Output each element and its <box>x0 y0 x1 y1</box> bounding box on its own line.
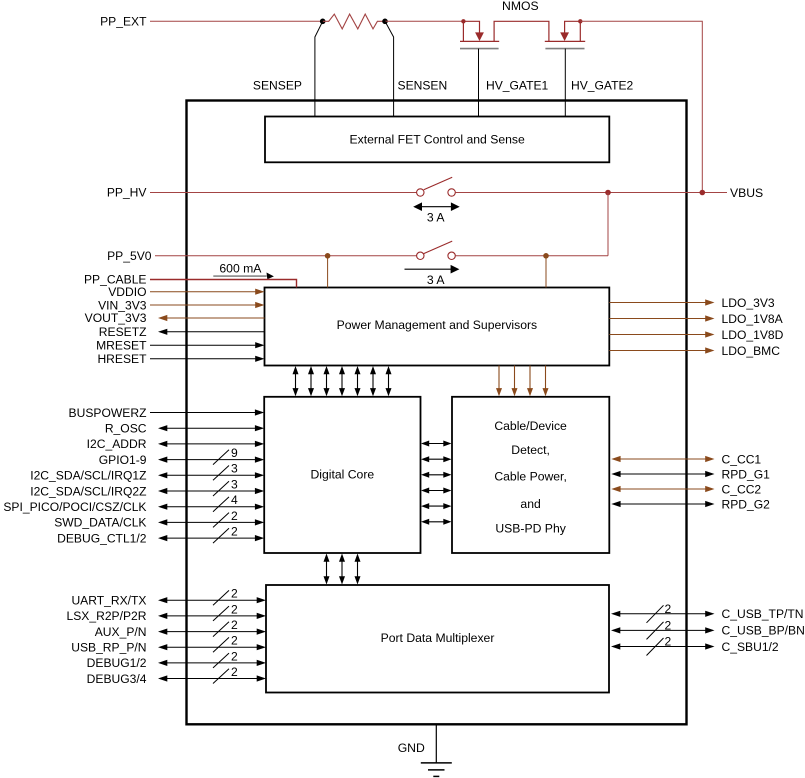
pin label UART_RX/TX <box>71 594 146 608</box>
svg-text:DEBUG1/2: DEBUG1/2 <box>87 656 147 670</box>
wire DEBUG3/4 <box>158 665 266 684</box>
svg-text:PP_HV: PP_HV <box>107 186 148 200</box>
wire LDO_1V8A <box>609 315 714 321</box>
wire GPIO1-9 <box>158 446 264 465</box>
svg-text:External FET Control and Sense: External FET Control and Sense <box>350 132 525 146</box>
pin label GPIO1-9 <box>99 453 147 467</box>
pin label I2C_SDA/SCL/IRQ2Z <box>30 484 147 498</box>
pin label I2C_ADDR <box>87 437 147 451</box>
pin label C_CC1 <box>722 452 762 466</box>
bus PM-DigitalCore arrow 7 <box>386 366 392 396</box>
transistor Q1 channel <box>460 40 499 42</box>
pin label DEBUG_CTL1/2 <box>57 531 147 545</box>
pin label LDO_BMC <box>722 344 781 358</box>
pin label SPI_PICO/POCI/CSZ/CLK <box>3 500 146 514</box>
switch SW2 right contact <box>448 252 455 259</box>
svg-text:3 A: 3 A <box>427 273 445 287</box>
pin label C_CC2 <box>722 482 762 496</box>
pin label GND <box>398 741 425 755</box>
block Port Data Multiplexer <box>266 585 609 693</box>
svg-text:GPIO1-9: GPIO1-9 <box>99 453 147 467</box>
pin label PP_EXT <box>100 14 147 28</box>
pin label SWD_DATA/CLK <box>54 516 146 530</box>
pin label LSX_R2P/P2R <box>67 609 147 623</box>
wire I2C_SDA/SCL/IRQ1Z <box>158 462 264 481</box>
bus DigitalCore-CableDetect arrow 6 <box>421 519 452 525</box>
switch SW2 blade <box>424 241 453 254</box>
pin label C_USB_TP/TN <box>722 607 804 621</box>
annotation 600 mA arrow <box>213 261 274 279</box>
pin label PP_CABLE <box>84 273 147 287</box>
node VBUS junction dot <box>700 190 706 196</box>
node Q2 source junction dot <box>578 19 582 23</box>
label SENSEN <box>398 79 448 93</box>
pin label DEBUG1/2 <box>87 656 147 670</box>
wire between Q1 and Q2 <box>494 21 549 41</box>
transistor Q2 drain corner wire <box>565 21 581 33</box>
svg-text:9: 9 <box>231 446 238 460</box>
pin label VDDIO <box>108 285 146 299</box>
node PP_5V0 tap dot <box>325 253 331 259</box>
wire switch SW2 to tie <box>455 255 608 257</box>
wire C_SBU1/2 <box>611 635 715 656</box>
svg-text:3 A: 3 A <box>427 210 445 224</box>
bus PM-DigitalCore arrow 6 <box>370 366 376 396</box>
transistor Q1 gate plate <box>460 48 499 50</box>
wire SWD_DATA/CLK <box>158 509 264 528</box>
wire LDO_1V8D <box>609 331 714 337</box>
svg-text:PP_5V0: PP_5V0 <box>107 249 152 263</box>
node SENSEP junction dot <box>320 19 326 25</box>
ground symbol <box>421 763 452 777</box>
pin label LDO_3V3 <box>722 296 775 310</box>
node Q1 source junction dot <box>461 19 465 23</box>
pin label LDO_1V8D <box>722 328 784 342</box>
svg-text:2: 2 <box>665 618 672 632</box>
pin label R_OSC <box>105 422 147 436</box>
svg-text:LSX_R2P/P2R: LSX_R2P/P2R <box>67 609 147 623</box>
label SENSEP <box>253 79 302 93</box>
svg-text:2: 2 <box>231 634 238 648</box>
wire SPI_PICO/POCI/CSZ/CLK <box>158 493 264 512</box>
wire I2C_SDA/SCL/IRQ2Z <box>158 477 264 496</box>
block Digital Core <box>264 397 420 553</box>
svg-text:I2C_ADDR: I2C_ADDR <box>87 437 147 451</box>
wire LSX_R2P/P2R <box>158 602 266 621</box>
label NMOS <box>502 0 539 13</box>
svg-text:PP_EXT: PP_EXT <box>100 14 147 28</box>
transistor Q2 source lead <box>579 21 581 41</box>
wire LDO_3V3 <box>609 299 714 305</box>
pin label USB_RP_P/N <box>71 641 146 655</box>
wire VOUT_3V3 <box>158 315 265 321</box>
pin label LDO_1V8A <box>722 312 784 326</box>
svg-text:C_CC1: C_CC1 <box>722 452 762 466</box>
wire C_USB_BP/BN <box>611 618 715 639</box>
transistor Q2 channel <box>545 40 585 42</box>
wire PP_5V0 to switch <box>155 255 417 257</box>
wire I2C_ADDR <box>158 441 264 447</box>
svg-text:2: 2 <box>231 649 238 663</box>
annotation 3 A double arrow (SW1) <box>413 202 460 224</box>
svg-text:Digital Core: Digital Core <box>311 468 375 482</box>
wire MRESET <box>150 342 265 348</box>
bus DigitalCore-PortMux arrow 3 <box>355 554 361 585</box>
wire PP_HV to PP_5V0 tie <box>607 193 609 256</box>
pin label PP_5V0 <box>107 249 152 263</box>
pin label BUSPOWERZ <box>69 406 148 420</box>
svg-text:RESETZ: RESETZ <box>99 325 147 339</box>
switch SW1 blade <box>424 177 453 190</box>
pin label DEBUG3/4 <box>87 672 147 686</box>
switch SW2 left contact <box>417 252 424 259</box>
transistor Q2 body arrow <box>560 32 569 41</box>
pin label MRESET <box>96 338 147 352</box>
svg-text:RPD_G2: RPD_G2 <box>722 497 771 511</box>
svg-text:VDDIO: VDDIO <box>108 285 146 299</box>
block External FET Control and Sense <box>265 117 609 163</box>
wire PP_EXT to resistor <box>150 20 323 22</box>
svg-text:SENSEP: SENSEP <box>253 79 302 93</box>
bus DigitalCore-PortMux arrow 2 <box>339 554 345 585</box>
bus DigitalCore-CableDetect arrow 4 <box>421 488 452 494</box>
svg-text:HRESET: HRESET <box>97 352 147 366</box>
svg-text:HV_GATE1: HV_GATE1 <box>486 79 549 93</box>
wire HV_GATE1 <box>478 49 480 117</box>
svg-text:C_SBU1/2: C_SBU1/2 <box>722 640 779 654</box>
bus DigitalCore-CableDetect arrow 2 <box>421 456 452 462</box>
svg-text:DEBUG_CTL1/2: DEBUG_CTL1/2 <box>57 531 147 545</box>
svg-text:C_USB_TP/TN: C_USB_TP/TN <box>722 607 804 621</box>
svg-text:2: 2 <box>665 635 672 649</box>
pin label RESETZ <box>99 325 147 339</box>
wire PM-CableDetect supply 3 <box>527 366 533 397</box>
svg-text:Cable/Device: Cable/Device <box>494 419 567 433</box>
wire PP_CABLE <box>150 280 297 288</box>
svg-text:I2C_SDA/SCL/IRQ1Z: I2C_SDA/SCL/IRQ1Z <box>30 469 147 483</box>
svg-text:Detect,: Detect, <box>511 443 550 457</box>
svg-text:USB_RP_P/N: USB_RP_P/N <box>71 641 146 655</box>
svg-text:DEBUG3/4: DEBUG3/4 <box>87 672 147 686</box>
svg-text:2: 2 <box>231 509 238 523</box>
label HV_GATE2 <box>571 79 634 93</box>
wire HRESET <box>150 356 265 362</box>
wire resistor to NMOS Q1 <box>385 20 463 22</box>
svg-text:LDO_1V8A: LDO_1V8A <box>722 312 784 326</box>
wire HV_GATE2 <box>564 49 566 117</box>
pin label PP_HV <box>107 186 148 200</box>
svg-text:2: 2 <box>231 587 238 601</box>
wire DEBUG1/2 <box>158 649 266 668</box>
svg-text:BUSPOWERZ: BUSPOWERZ <box>69 406 148 420</box>
svg-text:RPD_G1: RPD_G1 <box>722 467 771 481</box>
svg-text:SWD_DATA/CLK: SWD_DATA/CLK <box>54 516 146 530</box>
bus DigitalCore-CableDetect arrow 3 <box>421 472 452 478</box>
bus PM-DigitalCore arrow 1 <box>293 366 299 396</box>
wire GND <box>435 724 437 763</box>
block Cable/Device Detect Cable Power and USB-PD Phy <box>452 397 609 553</box>
transistor Q2 gate plate <box>545 48 584 50</box>
svg-text:Cable Power,: Cable Power, <box>494 469 567 483</box>
wire PM-CableDetect supply 4 <box>543 366 549 397</box>
svg-text:LDO_3V3: LDO_3V3 <box>722 296 775 310</box>
bus PM-DigitalCore arrow 2 <box>308 366 314 396</box>
wire LDO_BMC <box>609 347 714 353</box>
svg-text:GND: GND <box>398 741 425 755</box>
pin label C_USB_BP/BN <box>722 624 805 638</box>
pin label RPD_G1 <box>722 467 771 481</box>
svg-text:VOUT_3V3: VOUT_3V3 <box>85 311 147 325</box>
pin label RPD_G2 <box>722 497 771 511</box>
transistor Q1 drain corner wire <box>463 21 479 33</box>
wire R_OSC <box>158 425 264 431</box>
wire RESETZ <box>158 329 265 335</box>
wire switch SW1 to VBUS <box>455 192 727 194</box>
wire SENSEN <box>385 21 394 116</box>
node 5V0 tap2 dot <box>543 253 549 259</box>
wire PP_5V0 tap to PM block <box>327 256 329 288</box>
wire RPD_G2 <box>611 501 714 507</box>
wire PP_HV to switch <box>150 192 417 194</box>
svg-text:Port Data Multiplexer: Port Data Multiplexer <box>381 631 495 645</box>
svg-text:600 mA: 600 mA <box>219 261 262 275</box>
svg-text:Power Management and Superviso: Power Management and Supervisors <box>337 318 538 332</box>
wire AUX_P/N <box>158 618 266 637</box>
wire VIN_3V3 <box>150 302 265 308</box>
svg-text:MRESET: MRESET <box>96 338 147 352</box>
svg-text:2: 2 <box>231 602 238 616</box>
bus DigitalCore-CableDetect arrow 5 <box>421 503 452 509</box>
pin label HRESET <box>97 352 147 366</box>
pin label AUX_P/N <box>95 625 147 639</box>
wire RPD_G1 <box>611 471 714 477</box>
bus PM-DigitalCore arrow 4 <box>339 366 345 396</box>
svg-text:LDO_1V8D: LDO_1V8D <box>722 328 784 342</box>
svg-text:HV_GATE2: HV_GATE2 <box>571 79 634 93</box>
svg-text:VBUS: VBUS <box>730 186 763 200</box>
pin label VIN_3V3 <box>98 298 147 312</box>
svg-text:2: 2 <box>665 602 672 616</box>
chip outer boundary <box>187 101 687 725</box>
wire UART_RX/TX <box>158 587 266 606</box>
svg-text:2: 2 <box>231 525 238 539</box>
svg-text:R_OSC: R_OSC <box>105 422 147 436</box>
wire VDDIO <box>150 289 265 295</box>
bus PM-DigitalCore arrow 3 <box>324 366 330 396</box>
transistor Q1 source lead <box>462 21 464 41</box>
wire USB_RP_P/N <box>158 634 266 653</box>
pin label C_SBU1/2 <box>722 640 779 654</box>
pin label I2C_SDA/SCL/IRQ1Z <box>30 469 147 483</box>
wire C_USB_TP/TN <box>611 602 715 623</box>
resistor current-sense <box>323 14 385 29</box>
wire DEBUG_CTL1/2 <box>158 525 264 544</box>
transistor Q1 body arrow <box>475 32 484 41</box>
svg-text:NMOS: NMOS <box>502 0 539 13</box>
switch SW1 left contact <box>417 189 424 196</box>
svg-text:3: 3 <box>231 462 238 476</box>
svg-text:UART_RX/TX: UART_RX/TX <box>71 594 146 608</box>
svg-text:I2C_SDA/SCL/IRQ2Z: I2C_SDA/SCL/IRQ2Z <box>30 484 147 498</box>
wire SENSEP <box>315 21 323 116</box>
svg-text:LDO_BMC: LDO_BMC <box>722 344 781 358</box>
svg-text:4: 4 <box>231 493 238 507</box>
svg-text:2: 2 <box>231 665 238 679</box>
bus DigitalCore-CableDetect arrow 1 <box>421 441 452 447</box>
svg-text:SPI_PICO/POCI/CSZ/CLK: SPI_PICO/POCI/CSZ/CLK <box>3 500 146 514</box>
wire 5V0 tap2 to PM block <box>545 256 547 288</box>
wire PM-CableDetect supply 1 <box>496 366 502 397</box>
wire PM-CableDetect supply 2 <box>512 366 518 397</box>
label HV_GATE1 <box>486 79 549 93</box>
svg-text:SENSEN: SENSEN <box>398 79 448 93</box>
wire Q2 to VBUS drop <box>580 21 702 192</box>
svg-text:and: and <box>520 497 540 511</box>
wire BUSPOWERZ <box>150 409 264 415</box>
svg-text:3: 3 <box>231 477 238 491</box>
svg-text:C_CC2: C_CC2 <box>722 482 762 496</box>
node VBUS-5V junction dot <box>605 190 611 196</box>
bus PM-DigitalCore arrow 5 <box>355 366 361 396</box>
svg-text:2: 2 <box>231 618 238 632</box>
node SENSEN junction dot <box>382 19 388 25</box>
svg-text:C_USB_BP/BN: C_USB_BP/BN <box>722 624 805 638</box>
pin label VOUT_3V3 <box>85 311 147 325</box>
bus DigitalCore-PortMux arrow 1 <box>324 554 330 585</box>
wire C_CC2 <box>611 486 714 492</box>
pin label VBUS <box>730 186 763 200</box>
wire C_CC1 <box>611 456 714 462</box>
svg-text:AUX_P/N: AUX_P/N <box>95 625 147 639</box>
svg-text:USB-PD Phy: USB-PD Phy <box>495 521 566 535</box>
block Power Management and Supervisors <box>265 288 610 366</box>
annotation 3 A arrow (SW2) <box>405 265 460 287</box>
switch SW1 right contact <box>448 189 455 196</box>
